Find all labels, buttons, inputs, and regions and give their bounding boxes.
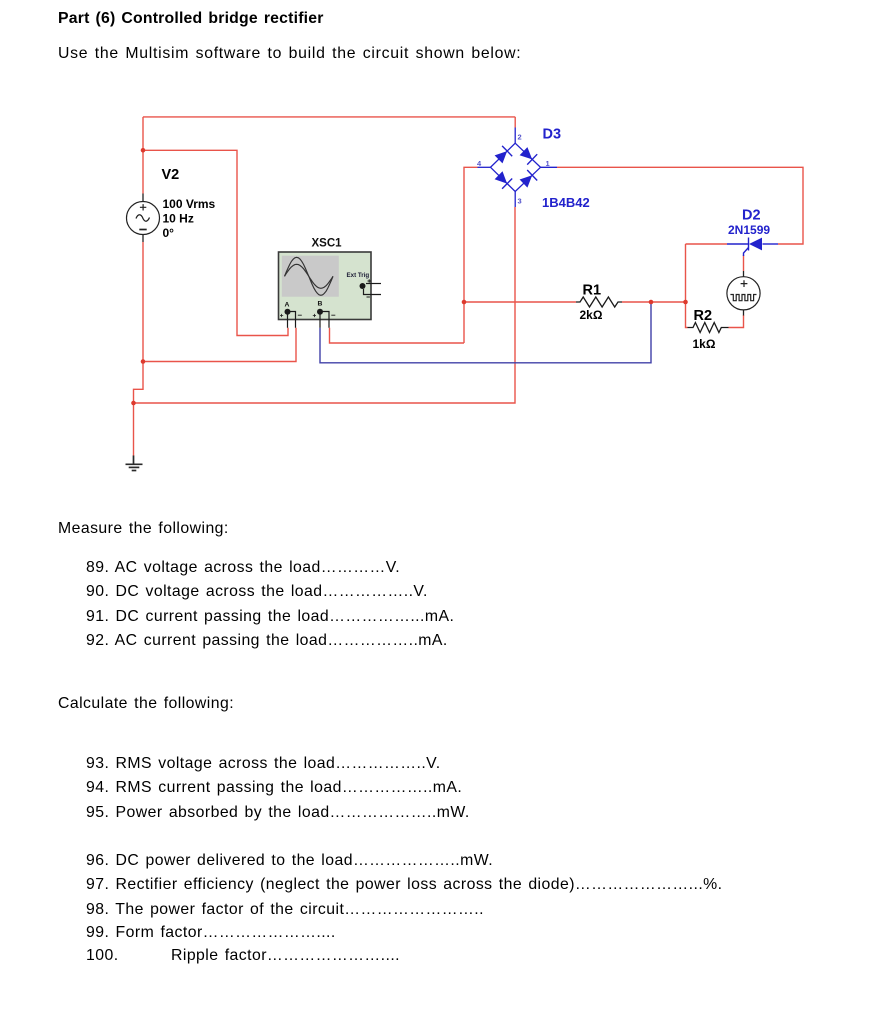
svg-text:1kΩ: 1kΩ [693, 337, 716, 351]
measure items [86, 559, 400, 576]
svg-text:2N1599: 2N1599 [728, 223, 770, 237]
wire bottom return to bridge pin3 [134, 207, 516, 403]
wire top horizontal V2 to bridge pin2 [143, 116, 515, 118]
wire blue scope B+ to R1 node [320, 302, 651, 363]
SCR D2 [727, 238, 778, 257]
svg-text:D3: D3 [543, 127, 562, 143]
bridge rectifier D3 body [478, 128, 558, 208]
svg-text:4: 4 [477, 159, 482, 168]
svg-text:0°: 0° [163, 226, 175, 240]
scope channel B terminal [313, 301, 336, 328]
scope channel A terminal [280, 302, 302, 328]
svg-text:R1: R1 [583, 283, 602, 299]
svg-text:3: 3 [518, 197, 522, 206]
svg-text:2: 2 [518, 133, 522, 142]
wire from node to scope A+ column [143, 150, 288, 335]
oscilloscope XSC1 [279, 252, 372, 320]
node junction V2 bottom [141, 359, 146, 364]
wire R1 right to nodes [622, 301, 686, 303]
bridge diode top-left [495, 146, 513, 164]
wire R2 right to source bottom [729, 315, 744, 328]
pulse source (load) [727, 271, 760, 316]
svg-text:1B4B42: 1B4B42 [542, 195, 590, 210]
wire ground lead [133, 403, 135, 456]
intro line [58, 45, 521, 62]
ext trig terminal [360, 279, 382, 297]
svg-text:B: B [318, 301, 323, 308]
svg-text:10 Hz: 10 Hz [163, 212, 194, 226]
wire V2 bottom vertical [134, 242, 144, 403]
resistor R1 [576, 297, 622, 307]
svg-text:100 Vrms: 100 Vrms [163, 197, 216, 211]
scope trace A [285, 257, 334, 295]
svg-text:A: A [285, 302, 290, 309]
wire V2 top vertical [142, 117, 144, 194]
bridge diode bottom-left [495, 171, 513, 189]
wire node to D2 cathode side [686, 243, 728, 245]
svg-text:2kΩ: 2kΩ [580, 308, 603, 322]
wire node to R1 left [464, 301, 576, 303]
wire bridge pin4 vertical [464, 167, 478, 343]
wire scope A- to V2 bottom node [143, 328, 296, 362]
wire source top red segment [743, 255, 745, 271]
resistor R2 [688, 323, 729, 333]
node junction pin4/R1 [462, 300, 467, 305]
svg-text:R2: R2 [694, 308, 713, 324]
bridge diode top-right [520, 147, 538, 165]
svg-text:XSC1: XSC1 [312, 238, 343, 250]
wire bridge pin2 drop [514, 117, 516, 128]
ground [126, 456, 143, 471]
wire node down to R2 [686, 244, 688, 328]
node junction R1/R2/D2 [683, 300, 688, 305]
bridge diode bottom-right [520, 170, 538, 188]
node junction ground corner [131, 401, 136, 406]
scope trace B [285, 264, 334, 288]
svg-text:1: 1 [546, 159, 550, 168]
calculate heading [58, 695, 234, 712]
document title [58, 10, 324, 27]
node junction V2 top [141, 148, 146, 153]
wire bridge pin1 to D2 anode [557, 167, 803, 244]
node junction R1/scope B+ [649, 300, 654, 305]
svg-text:V2: V2 [162, 167, 180, 183]
wire scope B- to pin4 column [330, 328, 465, 343]
svg-text:Ext Trig: Ext Trig [347, 272, 370, 279]
svg-text:D2: D2 [742, 208, 761, 224]
AC source V2 [127, 194, 160, 243]
calculate items [86, 755, 441, 772]
measure heading [58, 520, 229, 537]
